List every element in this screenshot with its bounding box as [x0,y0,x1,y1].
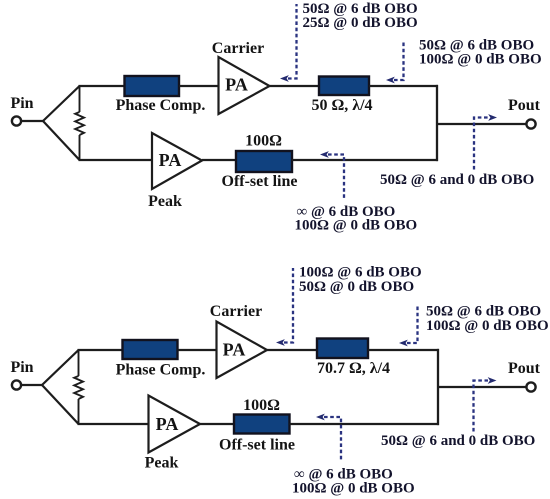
svg-text:100Ω @ 0 dB OBO: 100Ω @ 0 dB OBO [295,218,418,234]
output bus vertical wire (bottom circuit) [437,349,439,425]
svg-text:PA: PA [225,75,248,95]
wire carrier PA to quarter-wave line (top circuit) [270,85,321,87]
wire phase comp to carrier PA (top circuit) [179,85,219,87]
svg-text:PA: PA [156,414,179,434]
power splitter upper diagonal wire (top circuit) [43,86,80,121]
svg-text:100Ω: 100Ω [243,397,280,414]
annotation arrow at carrier PA output (top circuit) [288,4,297,79]
svg-text:50Ω @ 6 and 0 dB OBO: 50Ω @ 6 and 0 dB OBO [381,433,535,449]
svg-text:50Ω @ 6 and 0 dB OBO: 50Ω @ 6 and 0 dB OBO [380,172,534,188]
annotation arrow at off-set line output (top circuit) [328,155,344,200]
svg-text:Pin: Pin [10,95,33,112]
svg-text:Pout: Pout [508,360,541,377]
svg-text:Pin: Pin [10,359,33,376]
annotation arrow at output Pout (top circuit) [474,118,489,170]
svg-text:Pout: Pout [508,97,541,114]
annotation arrow at quarter-wave output (top circuit) [394,40,404,80]
svg-text:Peak: Peak [145,455,179,472]
carrier amplifier PA triangle (bottom circuit) [217,322,268,379]
isolation resistor R (top circuit) [75,85,84,161]
output wire to Pout (top circuit) [437,123,527,125]
wire off-set line to output bus (top circuit) [292,159,438,161]
svg-text:100Ω @ 0 dB OBO: 100Ω @ 0 dB OBO [292,481,415,497]
phase compensation line block (top circuit) [125,76,180,96]
svg-text:PA: PA [223,340,246,360]
quarter-wave transformer block 50ohm (top circuit) [319,77,369,96]
wire carrier PA to quarter-wave line (bottom circuit) [267,349,318,351]
carrier amplifier PA triangle (top circuit) [219,57,270,114]
svg-text:100Ω @ 0 dB OBO: 100Ω @ 0 dB OBO [419,52,542,68]
input terminal Pin (bottom circuit) [12,380,21,389]
svg-text:Phase Comp.: Phase Comp. [116,362,206,379]
wire peak PA to off-set line (bottom circuit) [200,423,235,425]
svg-text:Phase Comp.: Phase Comp. [116,97,206,114]
annotation arrow at output Pout (bottom circuit) [474,381,489,432]
output terminal Pout (bottom circuit) [526,382,535,391]
wire Pin to splitter apex (bottom circuit) [21,384,42,386]
power splitter lower diagonal wire (top circuit) [43,121,80,160]
wire quarter-wave to output bus (top circuit) [369,85,438,87]
annotation arrow at carrier PA output (bottom circuit) [284,268,293,343]
wire splitter to phase comp (bottom circuit) [78,349,125,351]
output wire to Pout (bottom circuit) [438,386,527,388]
svg-text:Peak: Peak [148,193,182,210]
power splitter upper diagonal wire (bottom circuit) [42,350,79,385]
svg-text:50Ω @ 0 dB OBO: 50Ω @ 0 dB OBO [299,279,414,295]
peak amplifier PA triangle (top circuit) [152,133,202,189]
svg-text:70.7 Ω, λ/4: 70.7 Ω, λ/4 [317,360,390,377]
annotation arrow at quarter-wave output (bottom circuit) [407,306,418,343]
svg-text:100Ω @ 0 dB OBO: 100Ω @ 0 dB OBO [426,318,549,334]
svg-text:Carrier: Carrier [212,40,264,57]
wire Pin to splitter apex (top circuit) [21,120,43,122]
quarter-wave transformer block 70.7ohm (bottom circuit) [317,339,368,359]
svg-text:PA: PA [159,150,182,170]
wire quarter-wave to output bus (bottom circuit) [368,349,439,351]
phase compensation line block (bottom circuit) [123,340,178,359]
output terminal Pout (top circuit) [526,119,535,128]
off-set line block (top circuit) [236,151,292,172]
wire splitter to peak PA (top circuit) [79,159,154,161]
off-set line block (bottom circuit) [234,415,290,434]
isolation resistor R (bottom circuit) [74,349,83,425]
wire phase comp to carrier PA (bottom circuit) [178,349,218,351]
wire peak PA to off-set line (top circuit) [202,159,237,161]
input terminal Pin (top circuit) [12,116,21,125]
svg-text:Off-set line: Off-set line [219,437,295,454]
svg-text:Carrier: Carrier [210,303,262,320]
wire splitter to phase comp (top circuit) [79,85,127,87]
output bus vertical wire (top circuit) [436,85,438,161]
wire off-set line to output bus (bottom circuit) [290,423,440,425]
svg-text:25Ω @ 0 dB OBO: 25Ω @ 0 dB OBO [303,15,418,31]
svg-text:Off-set line: Off-set line [222,173,298,190]
annotation arrow at off-set line output (bottom circuit) [324,417,341,460]
svg-text:100Ω: 100Ω [245,133,282,150]
svg-text:50 Ω, λ/4: 50 Ω, λ/4 [311,97,372,114]
wire splitter to peak PA (bottom circuit) [78,423,151,425]
power splitter lower diagonal wire (bottom circuit) [42,385,79,424]
peak amplifier PA triangle (bottom circuit) [149,396,201,453]
